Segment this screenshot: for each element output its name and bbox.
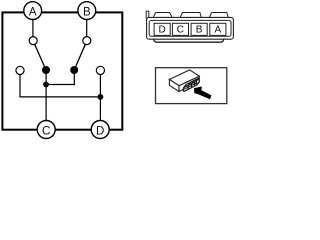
- terminal B: [78, 2, 96, 20]
- terminal C: [37, 121, 55, 139]
- wire B lead: [86, 17, 88, 37]
- svg-text:B: B: [196, 25, 203, 36]
- cavity A: [210, 23, 226, 35]
- svg-text:D: D: [158, 25, 165, 36]
- wire left contact drop: [20, 74, 100, 97]
- contact circle right: [96, 66, 104, 74]
- switch arm A: [35, 44, 46, 70]
- svg-text:A: A: [214, 25, 221, 36]
- svg-text:C: C: [42, 125, 50, 137]
- relay body side face: [179, 76, 199, 91]
- pivot dot 2: [70, 66, 78, 74]
- svg-text:A: A: [29, 7, 37, 19]
- relay connector block face: [183, 81, 197, 91]
- contact circle under B: [83, 37, 91, 45]
- contact circle left: [16, 66, 24, 74]
- junction J2: [98, 94, 104, 100]
- relay photo frame: [156, 68, 227, 104]
- pivot dot 1: [42, 66, 50, 74]
- relay connector block side: [196, 78, 199, 85]
- wire dot2 drop: [73, 70, 75, 85]
- relay connector slot midline: [184, 83, 197, 89]
- junction J1: [43, 82, 49, 88]
- cavity B: [191, 23, 207, 35]
- cavity C: [172, 23, 188, 35]
- connector outer body: [147, 17, 234, 39]
- connector tab 2: [180, 13, 201, 18]
- relay case outline: [2, 12, 122, 129]
- svg-text:D: D: [96, 125, 104, 137]
- wire common to C: [45, 70, 47, 124]
- relay connector slot tops: [188, 82, 190, 85]
- terminal A: [24, 2, 42, 20]
- connector key tab: [146, 11, 149, 18]
- relay body front face: [169, 79, 179, 91]
- svg-text:B: B: [83, 7, 91, 19]
- wire right contact to D: [99, 74, 101, 124]
- wire link line: [46, 84, 75, 86]
- connector inner face: [149, 20, 231, 36]
- cavity D: [154, 23, 170, 35]
- terminal D: [91, 121, 109, 139]
- wire A lead: [32, 17, 34, 37]
- switch arm B: [74, 44, 85, 70]
- svg-text:C: C: [177, 25, 184, 36]
- connector skirt: [154, 39, 224, 42]
- contact circle under A: [29, 37, 37, 45]
- relay connector block top: [184, 78, 199, 87]
- relay connector slot dividers: [187, 86, 190, 90]
- pointer arrow: [194, 87, 212, 100]
- relay body top face: [169, 70, 199, 86]
- connector tab 3: [209, 13, 228, 18]
- connector tab 1: [153, 13, 172, 18]
